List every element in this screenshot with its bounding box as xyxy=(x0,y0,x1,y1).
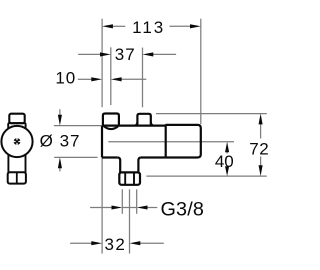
svg-text:10: 10 xyxy=(55,69,76,88)
svg-text:G3/8: G3/8 xyxy=(160,198,204,220)
svg-text:113: 113 xyxy=(132,18,165,37)
svg-text:Ø 37: Ø 37 xyxy=(40,131,81,150)
svg-text:37: 37 xyxy=(115,45,136,64)
svg-text:40: 40 xyxy=(215,152,234,171)
svg-text:32: 32 xyxy=(104,235,126,254)
svg-text:72: 72 xyxy=(249,140,269,159)
